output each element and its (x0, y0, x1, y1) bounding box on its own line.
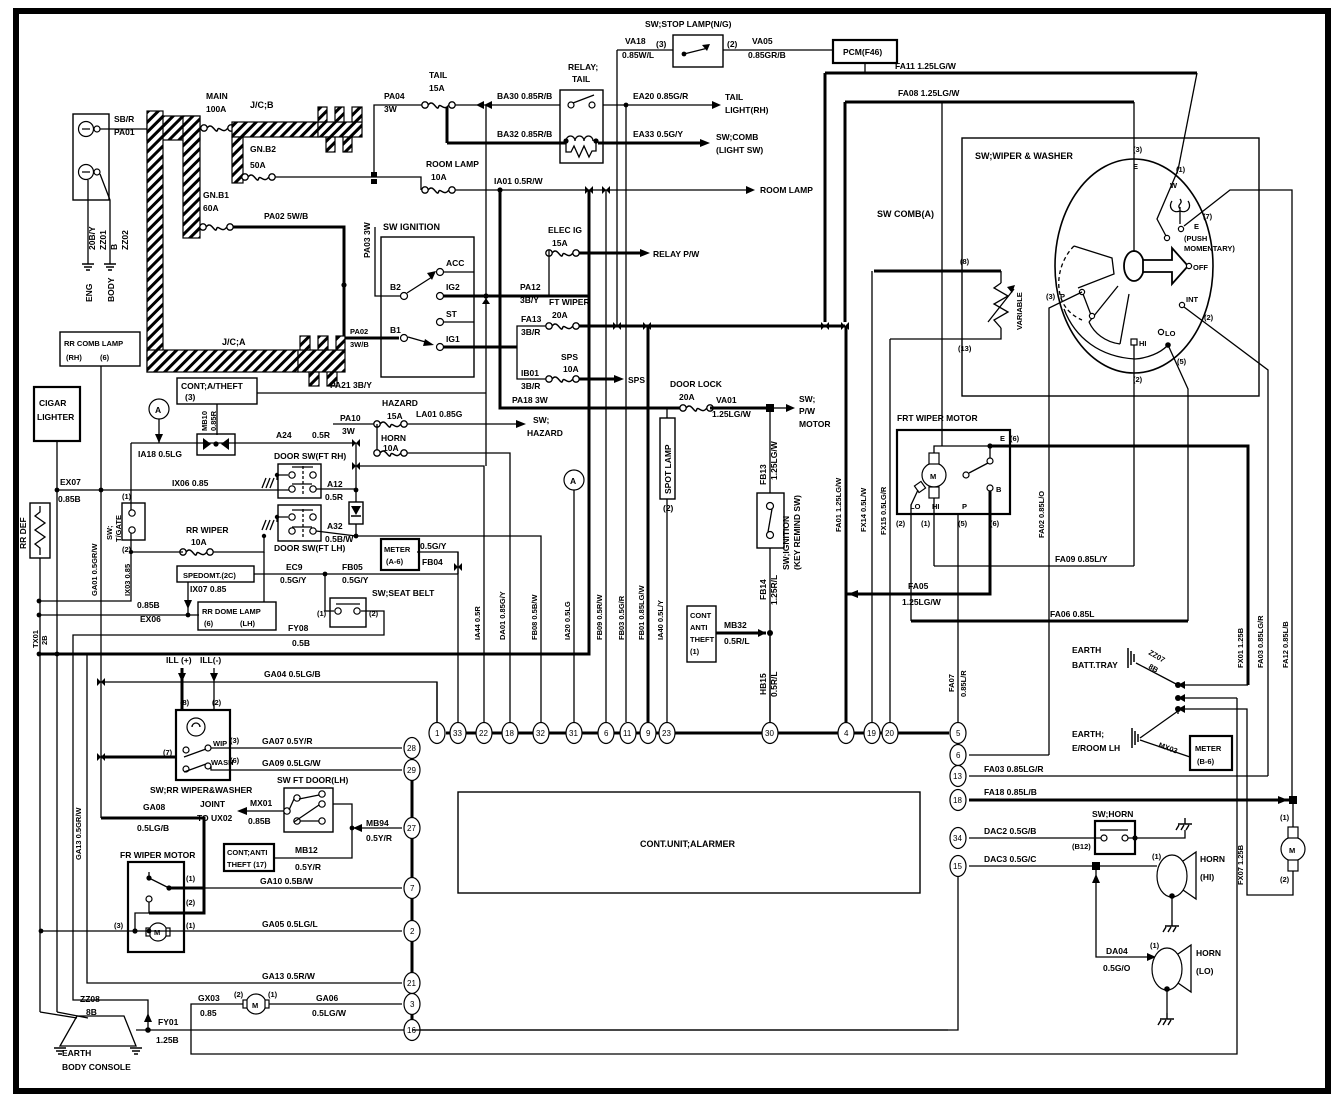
WASH wire to 29 (211, 766, 402, 770)
wire FA09 (934, 565, 1134, 567)
fuse GN.B2 50A (242, 174, 275, 180)
svg-text:(1): (1) (921, 519, 931, 528)
feeds down into row circles (436, 682, 438, 722)
SW FT DOOR(LH) switch (284, 788, 333, 832)
svg-text:DAC2 0.5G/B: DAC2 0.5G/B (984, 826, 1036, 836)
vertical label wires above row (417, 552, 458, 722)
connector A circle middle (564, 470, 584, 490)
svg-text:(8): (8) (960, 257, 970, 266)
fuse RR WIPER 10A (180, 549, 213, 555)
WIP wire to 28 (211, 747, 402, 749)
GA04 wire (101, 682, 437, 722)
svg-text:PA02 5W/B: PA02 5W/B (264, 211, 308, 221)
svg-text:A12: A12 (327, 479, 343, 489)
svg-text:0.85L/R: 0.85L/R (959, 670, 968, 697)
svg-text:E: E (1194, 222, 1199, 231)
svg-text:ZZ08: ZZ08 (80, 994, 100, 1004)
svg-text:FA13: FA13 (521, 314, 542, 324)
svg-text:THEFT: THEFT (690, 635, 715, 644)
connector A circle left (149, 399, 169, 419)
wire FB09 vertical to circle 6 (605, 190, 607, 722)
svg-text:FA07: FA07 (947, 674, 956, 692)
svg-text:19: 19 (867, 729, 876, 738)
svg-text:TAIL: TAIL (725, 92, 743, 102)
svg-text:FB04: FB04 (422, 557, 443, 567)
svg-text:ACC: ACC (446, 258, 464, 268)
EX07 wire (57, 489, 290, 491)
svg-text:3: 3 (410, 1000, 415, 1009)
earth block trapezoid ZZ08 (60, 1016, 136, 1046)
svg-text:PA03 3W: PA03 3W (362, 221, 372, 258)
svg-text:SPOT LAMP: SPOT LAMP (663, 444, 673, 494)
junction arrows on IA01 (585, 186, 593, 194)
SW;RR WIPER&WASHER switch box (176, 710, 230, 780)
svg-text:2B: 2B (40, 635, 49, 645)
svg-text:(2): (2) (727, 39, 738, 49)
svg-text:(6): (6) (1010, 434, 1020, 443)
MB32 wire from cont anti theft (716, 632, 766, 635)
svg-text:GX03: GX03 (198, 993, 220, 1003)
wire FX01 E to earth (990, 446, 1248, 685)
hatched bar: main vertical (147, 111, 163, 372)
svg-text:E/ROOM LH: E/ROOM LH (1072, 743, 1120, 753)
svg-text:RELAY P/W: RELAY P/W (653, 249, 700, 259)
svg-text:0.5R: 0.5R (312, 430, 330, 440)
connector circles row (429, 723, 445, 744)
FB13 key remind (769, 408, 771, 493)
svg-text:22: 22 (479, 729, 488, 738)
svg-text:METER: METER (384, 545, 411, 554)
washer motor right M (1281, 837, 1305, 861)
svg-text:(2): (2) (212, 698, 222, 707)
svg-text:DOOR LOCK: DOOR LOCK (670, 379, 723, 389)
svg-text:SW;: SW; (533, 415, 550, 425)
svg-text:SW;HORN: SW;HORN (1092, 809, 1133, 819)
svg-text:(3): (3) (114, 921, 124, 930)
svg-text:0.85B: 0.85B (58, 494, 81, 504)
svg-text:GA08: GA08 (143, 802, 165, 812)
svg-text:P/W: P/W (799, 406, 816, 416)
svg-text:21: 21 (407, 979, 416, 988)
wire FB03 vertical to circle 11 (625, 105, 627, 722)
svg-text:VA01: VA01 (716, 395, 737, 405)
svg-text:MB12: MB12 (295, 845, 318, 855)
wire to TAIL fuse (374, 105, 422, 177)
svg-text:8B: 8B (86, 1007, 97, 1017)
svg-text:IA18 0.5LG: IA18 0.5LG (138, 449, 182, 459)
svg-text:SW;: SW; (105, 526, 114, 540)
svg-text:GN.B1: GN.B1 (203, 190, 229, 200)
SW;HORN switch (1095, 821, 1135, 854)
svg-text:PA12: PA12 (520, 282, 541, 292)
svg-text:FA03 0.85LG/R: FA03 0.85LG/R (984, 764, 1044, 774)
svg-text:IX07 0.85: IX07 0.85 (190, 584, 227, 594)
ground BODY (104, 264, 116, 270)
svg-text:0.5G/Y: 0.5G/Y (342, 575, 369, 585)
vertical x486 from tail wire down (485, 105, 487, 466)
svg-text:DOOR SW(FT RH): DOOR SW(FT RH) (274, 451, 346, 461)
svg-text:CIGAR: CIGAR (39, 398, 66, 408)
svg-text:34: 34 (953, 834, 962, 843)
CONT.UNIT;ALARMER box (458, 792, 920, 893)
wire EA33 to SW COMB (598, 142, 700, 145)
METER (A-6) box (381, 539, 419, 570)
(7) feed wire (101, 756, 176, 759)
fuse MAIN 100A (201, 125, 234, 131)
FA02 to circle 6 (969, 754, 1049, 756)
svg-text:A: A (155, 405, 161, 415)
SW;IGNITION key remind switch (757, 493, 784, 548)
svg-text:0.85B: 0.85B (248, 816, 271, 826)
svg-text:FA12 0.85L/B: FA12 0.85L/B (1281, 621, 1290, 668)
svg-text:GA13 0.5R/W: GA13 0.5R/W (262, 971, 316, 981)
wire FA08 branch down (941, 102, 943, 446)
svg-text:0.5G/Y: 0.5G/Y (420, 541, 447, 551)
dial dashed sector (1059, 246, 1082, 320)
svg-text:MB32: MB32 (724, 620, 747, 630)
svg-text:RR DEF: RR DEF (18, 517, 28, 549)
FY01 + trapezoid earth (136, 1029, 948, 1031)
diagonal to W terminal (1178, 73, 1197, 170)
svg-text:FA18 0.85L/B: FA18 0.85L/B (984, 787, 1037, 797)
horn HI wire (969, 865, 1157, 867)
svg-text:(2): (2) (896, 519, 906, 528)
FR WIPER MOTOR box (128, 862, 184, 952)
FA08 wire (845, 102, 1134, 322)
wire IG1 (443, 346, 517, 349)
CIGAR LIGHTER box (34, 387, 80, 441)
svg-text:SW;RR WIPER&WASHER: SW;RR WIPER&WASHER (150, 785, 252, 795)
svg-text:BA32 0.85R/B: BA32 0.85R/B (497, 129, 552, 139)
wire FA06 (911, 620, 1188, 623)
hatched bar: second vertical (183, 116, 200, 238)
svg-text:METER: METER (1195, 744, 1222, 753)
svg-text:B2: B2 (390, 282, 401, 292)
svg-text:PA10: PA10 (340, 413, 361, 423)
connector row bus wire (446, 732, 949, 735)
fuse HORN 10A (374, 450, 407, 456)
svg-text:(3): (3) (230, 736, 240, 745)
svg-text:HI: HI (1139, 339, 1147, 348)
wire PA18 3W bus (500, 190, 683, 408)
svg-text:DAC3 0.5G/C: DAC3 0.5G/C (984, 854, 1036, 864)
wire VA18 vertical (616, 50, 618, 326)
svg-text:(RH): (RH) (66, 353, 82, 362)
wire FA12 washer to right edge (1184, 190, 1292, 799)
svg-text:GA13 0.5GR/W: GA13 0.5GR/W (74, 807, 83, 860)
svg-text:VARIABLE: VARIABLE (1015, 292, 1024, 330)
svg-text:TAIL: TAIL (429, 70, 447, 80)
svg-text:JOINT: JOINT (200, 799, 226, 809)
HORN HI (1157, 855, 1187, 897)
svg-text:FB03 0.5G/R: FB03 0.5G/R (617, 595, 626, 640)
MB94 wire (333, 804, 402, 828)
fuse ELEC IG 15A (546, 250, 579, 256)
svg-text:1.25R/L: 1.25R/L (769, 575, 779, 605)
svg-text:PA21 3B/Y: PA21 3B/Y (330, 380, 372, 390)
wire EA20 to TAIL LIGHT (603, 104, 712, 106)
wire VA18 (617, 49, 673, 51)
svg-text:HAZARD: HAZARD (527, 428, 563, 438)
SPS fuse (546, 376, 579, 382)
svg-text:1.25LG/W: 1.25LG/W (712, 409, 752, 419)
svg-text:M: M (252, 1001, 258, 1010)
svg-text:FX01 1.25B: FX01 1.25B (1236, 627, 1245, 668)
GA05 wire to 2 (41, 930, 402, 932)
svg-text:(1): (1) (268, 990, 278, 999)
JOINT TO UX02 (247, 810, 284, 812)
small hatched drop under J/C;B (232, 137, 243, 183)
svg-text:0.85R: 0.85R (209, 410, 218, 431)
svg-text:CONT.UNIT;ALARMER: CONT.UNIT;ALARMER (640, 839, 735, 849)
svg-text:GN.B2: GN.B2 (250, 144, 276, 154)
wire FB01 vertical to circle 9 (647, 326, 650, 722)
relay box RELAY;TAIL (560, 90, 603, 163)
svg-text:FB13: FB13 (758, 464, 768, 485)
washer spray icon (1170, 199, 1189, 224)
svg-text:FA11 1.25LG/W: FA11 1.25LG/W (895, 61, 957, 71)
svg-text:ANTI: ANTI (690, 623, 708, 632)
svg-text:20A: 20A (552, 310, 568, 320)
DOOR SW(FT RH) switch (278, 464, 321, 498)
wire battery to bus (100, 128, 147, 130)
svg-text:WIP: WIP (213, 739, 227, 748)
svg-text:EC9: EC9 (286, 562, 303, 572)
svg-text:0.5B/W: 0.5B/W (325, 534, 354, 544)
svg-text:ROOM LAMP: ROOM LAMP (426, 159, 479, 169)
svg-text:GA09 0.5LG/W: GA09 0.5LG/W (262, 758, 322, 768)
svg-text:FR WIPER MOTOR: FR WIPER MOTOR (120, 850, 195, 860)
svg-text:32: 32 (536, 729, 545, 738)
svg-text:(8): (8) (180, 698, 190, 707)
svg-text:EA33 0.5G/Y: EA33 0.5G/Y (633, 129, 683, 139)
svg-text:(1): (1) (1150, 941, 1160, 950)
svg-text:E: E (1133, 162, 1138, 171)
bottom inner arc (1064, 309, 1167, 359)
svg-text:15: 15 (953, 862, 962, 871)
svg-text:100A: 100A (206, 104, 226, 114)
svg-text:10A: 10A (431, 172, 447, 182)
svg-text:1.25LG/W: 1.25LG/W (902, 597, 942, 607)
svg-text:5: 5 (956, 729, 961, 738)
svg-text:7: 7 (410, 884, 415, 893)
svg-text:28: 28 (407, 744, 416, 753)
svg-text:(1): (1) (122, 492, 132, 501)
svg-text:15A: 15A (552, 238, 568, 248)
svg-text:(2): (2) (1280, 875, 1290, 884)
svg-text:EX06: EX06 (140, 614, 161, 624)
svg-text:SW;STOP LAMP(N/G): SW;STOP LAMP(N/G) (645, 19, 732, 29)
svg-text:0.85GR/B: 0.85GR/B (748, 50, 786, 60)
svg-text:(2): (2) (1204, 313, 1214, 322)
GA08 loop (101, 818, 204, 913)
svg-text:GA10 0.5B/W: GA10 0.5B/W (260, 876, 314, 886)
wire ST (443, 321, 474, 323)
svg-text:FY08: FY08 (288, 623, 309, 633)
svg-text:FY01: FY01 (158, 1017, 179, 1027)
svg-text:3B/Y: 3B/Y (520, 295, 539, 305)
svg-text:FA08 1.25LG/W: FA08 1.25LG/W (898, 88, 960, 98)
svg-text:IA40 0.5L/Y: IA40 0.5L/Y (656, 600, 665, 640)
svg-text:0.5Y/R: 0.5Y/R (366, 833, 392, 843)
svg-text:0.5LG/B: 0.5LG/B (137, 823, 169, 833)
hatched bar J/C;B horizontal with comb (232, 122, 318, 137)
svg-text:ZZ01: ZZ01 (98, 230, 108, 250)
svg-text:IX03 0.85: IX03 0.85 (123, 564, 132, 596)
A24 wire through diode (131, 442, 356, 444)
svg-text:ST: ST (446, 309, 458, 319)
svg-text:GA01 0.5GR/W: GA01 0.5GR/W (90, 543, 99, 596)
svg-text:(5): (5) (958, 519, 968, 528)
CONT;A/THEFT (3) box (177, 378, 257, 404)
hatched bar: top horizontal piece (147, 116, 200, 140)
svg-text:FB14: FB14 (758, 579, 768, 600)
svg-text:13: 13 (953, 772, 962, 781)
svg-text:MB10: MB10 (200, 411, 209, 431)
FA11 wire (864, 63, 866, 73)
svg-text:MAIN: MAIN (206, 91, 228, 101)
wire FA09 HI vertical (1133, 345, 1135, 566)
svg-text:P: P (1060, 292, 1065, 301)
svg-text:MX01: MX01 (250, 798, 272, 808)
svg-text:EX07: EX07 (60, 477, 81, 487)
svg-text:15A: 15A (387, 411, 403, 421)
svg-text:SW;COMB: SW;COMB (716, 132, 758, 142)
svg-text:HORN: HORN (381, 433, 406, 443)
svg-text:(B12): (B12) (1072, 842, 1091, 851)
svg-text:M: M (154, 928, 160, 937)
svg-text:(PUSH: (PUSH (1184, 234, 1207, 243)
svg-text:GA05 0.5LG/L: GA05 0.5LG/L (262, 919, 318, 929)
svg-text:0.85B: 0.85B (137, 600, 160, 610)
svg-text:(6): (6) (100, 353, 110, 362)
svg-text:(7): (7) (1203, 212, 1213, 221)
svg-text:M: M (1289, 846, 1295, 855)
svg-text:1.25B: 1.25B (156, 1035, 179, 1045)
svg-text:TX01: TX01 (31, 630, 40, 648)
svg-text:(LH): (LH) (240, 619, 255, 628)
svg-text:BODY: BODY (106, 277, 116, 302)
svg-text:2: 2 (410, 927, 415, 936)
svg-text:FB05: FB05 (342, 562, 363, 572)
wire down from RR COMB (100, 366, 102, 818)
svg-text:ILL (+): ILL (+) (166, 655, 192, 665)
wire y654 dots (37, 652, 42, 657)
wire W terminal diagonal (1157, 170, 1178, 236)
svg-text:E: E (1000, 434, 1005, 443)
wire FA03 INT diagonal (1184, 307, 1268, 776)
wire GN.B2 to room lamp fuse (275, 177, 421, 190)
svg-text:0.5Y/R: 0.5Y/R (295, 862, 321, 872)
svg-text:(1): (1) (1280, 813, 1290, 822)
svg-text:(3): (3) (1046, 292, 1056, 301)
svg-text:BODY CONSOLE: BODY CONSOLE (62, 1062, 131, 1072)
svg-text:LA01 0.85G: LA01 0.85G (416, 409, 463, 419)
svg-text:DA01 0.85G/Y: DA01 0.85G/Y (498, 591, 507, 640)
svg-text:(B-6): (B-6) (1197, 757, 1215, 766)
PCM box (833, 40, 897, 63)
svg-text:0.85W/L: 0.85W/L (622, 50, 654, 60)
SPOT LAMP box (660, 418, 675, 499)
svg-text:DOOR SW(FT LH): DOOR SW(FT LH) (274, 543, 345, 553)
GA10 wire to 7 (169, 887, 204, 890)
svg-text:ENG: ENG (84, 283, 94, 302)
column circles x=412 (404, 723, 966, 1041)
svg-text:SW;SEAT BELT: SW;SEAT BELT (372, 588, 435, 598)
svg-text:LO: LO (1165, 329, 1176, 338)
svg-text:50A: 50A (250, 160, 266, 170)
svg-text:FX14 0.5L/W: FX14 0.5L/W (859, 487, 868, 532)
svg-text:ELEC IG: ELEC IG (548, 225, 582, 235)
svg-text:SW;WIPER & WASHER: SW;WIPER & WASHER (975, 151, 1073, 161)
svg-text:ILL(-): ILL(-) (200, 655, 221, 665)
svg-text:FA03 0.85LG/R: FA03 0.85LG/R (1256, 615, 1265, 668)
CONT ANTI THEFT (1) box (687, 606, 716, 662)
svg-text:RELAY;: RELAY; (568, 62, 598, 72)
svg-text:MB94: MB94 (366, 818, 389, 828)
svg-text:HB15: HB15 (758, 673, 768, 695)
DOOR SW(FT LH) switch (278, 505, 321, 541)
svg-text:(1): (1) (186, 874, 196, 883)
bottom bus wire to circle 15 (412, 877, 958, 1030)
svg-text:3W/B: 3W/B (350, 340, 369, 349)
earth symbol batt tray (1128, 648, 1134, 668)
wire IG2 PA12 (443, 295, 588, 298)
svg-text:SB/R: SB/R (114, 114, 134, 124)
svg-text:IG2: IG2 (446, 282, 460, 292)
EX06 wire + RR DOME LAMP (39, 614, 199, 616)
earth junction dots (1175, 682, 1181, 688)
svg-text:20: 20 (885, 729, 894, 738)
svg-text:OFF: OFF (1193, 263, 1208, 272)
PA21 wire (257, 392, 486, 394)
svg-text:FB08 0.5B/W: FB08 0.5B/W (530, 594, 539, 640)
svg-text:B1: B1 (390, 325, 401, 335)
svg-text:SW COMB(A): SW COMB(A) (877, 209, 934, 219)
fuse TAIL 15A (422, 102, 455, 108)
svg-text:B: B (109, 244, 119, 250)
svg-text:(HI): (HI) (1200, 872, 1214, 882)
svg-text:TO UX02: TO UX02 (197, 813, 233, 823)
svg-text:4: 4 (844, 729, 849, 738)
svg-text:23: 23 (662, 729, 671, 738)
connector circles column (404, 738, 420, 759)
svg-text:1.25LG/W: 1.25LG/W (769, 440, 779, 480)
svg-text:IA01 0.5R/W: IA01 0.5R/W (494, 176, 544, 186)
earth symbol e/room lh (1132, 728, 1138, 748)
svg-text:MOTOR: MOTOR (799, 419, 830, 429)
fuse ROOM LAMP 10A (422, 187, 455, 193)
wire FA06 LO diagonal (1168, 345, 1188, 621)
svg-text:(3): (3) (1133, 145, 1143, 154)
svg-text:PA02: PA02 (350, 327, 368, 336)
svg-text:SPS: SPS (628, 375, 645, 385)
wire GA13 (87, 654, 402, 983)
fuse DOOR LOCK 20A (680, 405, 713, 411)
svg-text:(3): (3) (185, 392, 196, 402)
svg-text:CONT;A/THEFT: CONT;A/THEFT (181, 381, 244, 391)
svg-text:SW;IGNITION: SW;IGNITION (781, 516, 791, 570)
svg-text:3W: 3W (342, 426, 356, 436)
svg-text:60A: 60A (203, 203, 219, 213)
svg-text:EARTH;: EARTH; (1072, 729, 1104, 739)
connector column bus wire (411, 748, 414, 1030)
junction on x356 y466 (352, 462, 360, 470)
wire BA30 (455, 104, 560, 106)
HORN LO (1152, 948, 1182, 990)
svg-text:FX07 1.25B: FX07 1.25B (1236, 844, 1245, 885)
svg-text:18: 18 (953, 796, 962, 805)
